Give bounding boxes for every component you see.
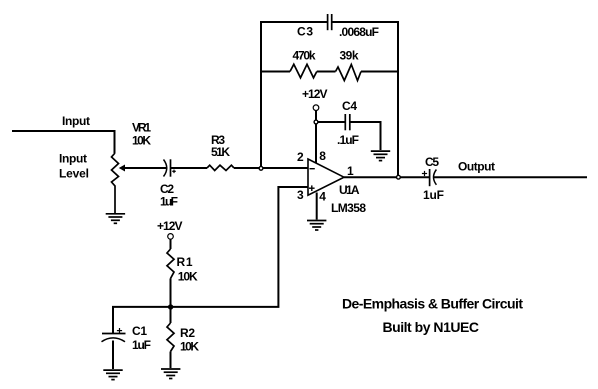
svg-text:LM358: LM358 xyxy=(331,201,366,215)
svg-text:De-Emphasis & Buffer Circuit: De-Emphasis & Buffer Circuit xyxy=(342,296,523,312)
svg-text:.1uF: .1uF xyxy=(337,133,359,147)
svg-text:.0068uF: .0068uF xyxy=(339,25,379,39)
svg-text:1uF: 1uF xyxy=(132,338,151,352)
svg-text:U1A: U1A xyxy=(339,183,360,197)
svg-text:R1: R1 xyxy=(177,255,193,269)
svg-text:Level: Level xyxy=(59,167,89,181)
svg-text:+12V: +12V xyxy=(302,87,328,101)
svg-text:+12V: +12V xyxy=(157,219,183,233)
svg-text:Input: Input xyxy=(59,152,87,166)
svg-text:3: 3 xyxy=(297,188,304,202)
svg-text:VR1: VR1 xyxy=(132,121,151,135)
svg-text:Output: Output xyxy=(458,160,495,174)
svg-text:Built by N1UEC: Built by N1UEC xyxy=(383,319,480,335)
svg-text:1uF: 1uF xyxy=(160,195,178,209)
svg-text:C4: C4 xyxy=(342,99,357,113)
svg-text:Input: Input xyxy=(62,114,90,128)
svg-text:1: 1 xyxy=(347,164,354,178)
svg-text:10K: 10K xyxy=(132,134,151,148)
svg-text:2: 2 xyxy=(297,150,304,164)
svg-text:R2: R2 xyxy=(180,326,195,340)
svg-text:10K: 10K xyxy=(180,340,199,354)
svg-text:8: 8 xyxy=(319,149,326,163)
svg-text:4: 4 xyxy=(319,190,326,204)
svg-text:39k: 39k xyxy=(340,49,359,63)
svg-text:10K: 10K xyxy=(178,270,198,284)
svg-text:470k: 470k xyxy=(293,49,316,63)
svg-text:C1: C1 xyxy=(132,324,147,338)
svg-text:1uF: 1uF xyxy=(423,188,444,202)
svg-text:51K: 51K xyxy=(211,145,230,159)
svg-text:C3: C3 xyxy=(297,25,313,39)
svg-text:C5: C5 xyxy=(425,155,439,169)
